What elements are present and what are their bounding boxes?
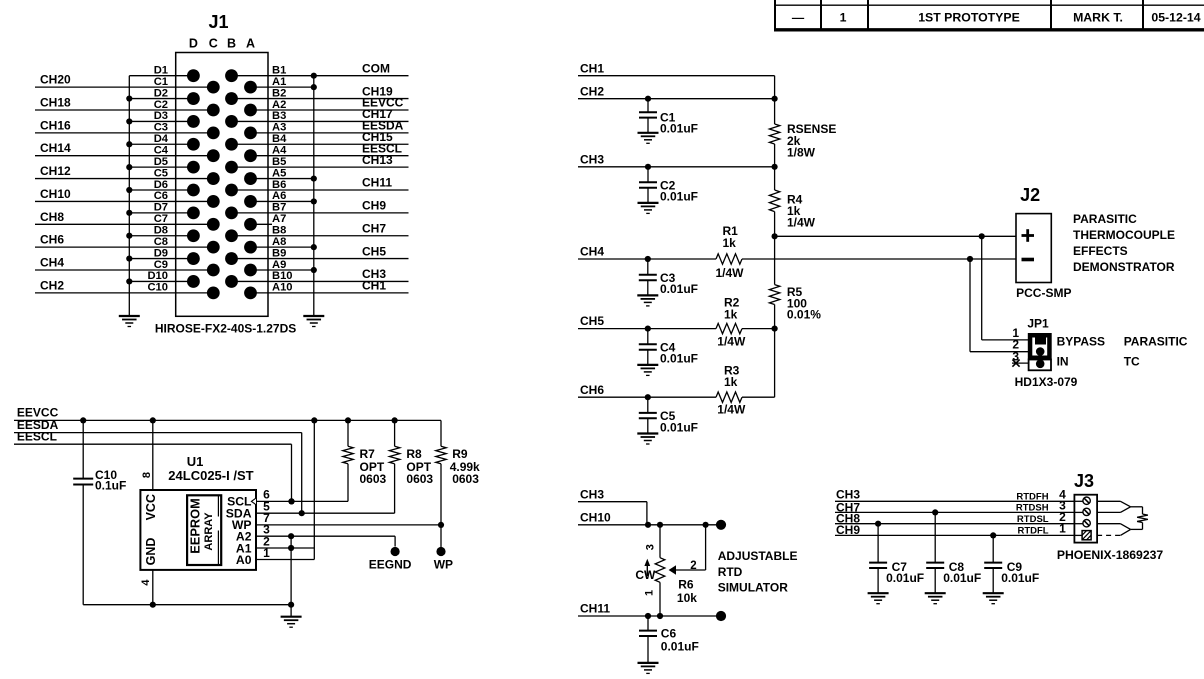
svg-text:C6: C6 [154, 190, 168, 202]
svg-text:CH11: CH11 [362, 176, 392, 190]
svg-text:A7: A7 [272, 213, 286, 225]
svg-text:HD1X3-079: HD1X3-079 [1015, 375, 1078, 389]
svg-text:3: 3 [1012, 349, 1019, 363]
svg-text:ADJUSTABLE: ADJUSTABLE [718, 549, 798, 563]
svg-text:A10: A10 [272, 282, 293, 294]
svg-text:RTDSH: RTDSH [1016, 503, 1049, 514]
svg-text:1ST PROTOTYPE: 1ST PROTOTYPE [918, 11, 1020, 25]
svg-text:J1: J1 [208, 12, 228, 32]
svg-text:ARRAY: ARRAY [203, 512, 215, 551]
svg-text:C3: C3 [154, 122, 168, 134]
svg-text:RTD: RTD [718, 565, 743, 579]
svg-text:D4: D4 [154, 133, 169, 145]
svg-text:D6: D6 [154, 179, 168, 191]
svg-text:CH4: CH4 [40, 256, 64, 270]
svg-text:D2: D2 [154, 87, 168, 99]
svg-text:A4: A4 [272, 145, 287, 157]
svg-text:10k: 10k [677, 591, 697, 605]
svg-text:A2: A2 [272, 99, 286, 111]
svg-text:PARASITIC: PARASITIC [1073, 212, 1137, 226]
svg-text:1/4W: 1/4W [717, 335, 746, 349]
svg-text:1k: 1k [723, 236, 737, 250]
svg-text:1: 1 [840, 11, 847, 25]
svg-text:CH12: CH12 [40, 164, 71, 178]
svg-text:4: 4 [140, 579, 152, 586]
svg-text:B10: B10 [272, 270, 293, 282]
svg-text:0.01uF: 0.01uF [660, 190, 698, 204]
svg-text:C10: C10 [147, 282, 168, 294]
svg-text:CH4: CH4 [580, 245, 604, 259]
svg-text:EEPROM: EEPROM [188, 498, 203, 553]
svg-text:CH3: CH3 [580, 152, 604, 166]
svg-text:CH8: CH8 [40, 210, 64, 224]
svg-text:B3: B3 [272, 110, 286, 122]
svg-text:D5: D5 [154, 156, 168, 168]
svg-text:J3: J3 [1074, 471, 1094, 491]
svg-text:C9: C9 [154, 259, 168, 271]
svg-text:CH20: CH20 [40, 73, 71, 87]
svg-text:CH13: CH13 [362, 153, 393, 167]
svg-text:C7: C7 [154, 213, 168, 225]
svg-text:—: — [792, 11, 805, 25]
svg-text:0.01uF: 0.01uF [660, 282, 698, 296]
svg-text:3: 3 [644, 544, 656, 550]
svg-text:CH14: CH14 [40, 141, 71, 155]
svg-text:CH6: CH6 [580, 383, 604, 397]
svg-text:CH7: CH7 [362, 221, 386, 235]
svg-text:B7: B7 [272, 202, 286, 214]
svg-text:1: 1 [643, 590, 655, 596]
svg-text:A6: A6 [272, 190, 286, 202]
svg-text:R6: R6 [678, 577, 694, 591]
svg-text:B2: B2 [272, 87, 286, 99]
svg-text:B6: B6 [272, 179, 286, 191]
svg-text:CW: CW [635, 568, 656, 582]
svg-text:B5: B5 [272, 156, 286, 168]
svg-text:1k: 1k [724, 375, 738, 389]
svg-text:GND: GND [144, 538, 158, 566]
svg-text:WP: WP [434, 558, 453, 572]
svg-text:CH1: CH1 [580, 61, 604, 75]
svg-text:EFFECTS: EFFECTS [1073, 244, 1128, 258]
svg-text:CH5: CH5 [580, 314, 604, 328]
svg-text:JP1: JP1 [1027, 317, 1049, 331]
svg-text:B8: B8 [272, 225, 286, 237]
svg-text:A1: A1 [272, 76, 286, 88]
svg-text:EEGND: EEGND [369, 558, 412, 572]
svg-text:CH9: CH9 [362, 199, 386, 213]
svg-text:R8: R8 [406, 447, 422, 461]
svg-text:1/8W: 1/8W [787, 146, 816, 160]
svg-text:1/4W: 1/4W [717, 403, 746, 417]
svg-text:D10: D10 [147, 270, 168, 282]
svg-text:CH3: CH3 [580, 487, 604, 501]
svg-text:A0: A0 [236, 553, 252, 567]
svg-text:0.01%: 0.01% [787, 307, 821, 321]
svg-text:0.01uF: 0.01uF [660, 121, 698, 135]
svg-text:B1: B1 [272, 65, 286, 77]
svg-text:0.1uF: 0.1uF [95, 478, 126, 492]
svg-text:CH11: CH11 [580, 602, 610, 616]
svg-text:RTDFH: RTDFH [1016, 491, 1048, 502]
svg-text:C1: C1 [154, 76, 168, 88]
svg-text:D: D [189, 37, 198, 51]
svg-text:D1: D1 [154, 65, 168, 77]
svg-text:C4: C4 [154, 145, 169, 157]
svg-text:PCC-SMP: PCC-SMP [1016, 286, 1071, 300]
svg-text:A8: A8 [272, 236, 286, 248]
svg-text:C8: C8 [154, 236, 168, 248]
svg-text:CH3: CH3 [836, 487, 860, 501]
svg-text:CH2: CH2 [40, 278, 64, 292]
svg-text:BYPASS: BYPASS [1057, 335, 1105, 349]
svg-text:IN: IN [1057, 355, 1069, 369]
svg-text:D3: D3 [154, 110, 168, 122]
svg-text:05-12-14: 05-12-14 [1151, 11, 1200, 25]
svg-text:1/4W: 1/4W [787, 216, 816, 230]
svg-text:0603: 0603 [360, 472, 387, 486]
svg-text:CH5: CH5 [362, 244, 386, 258]
svg-text:THERMOCOUPLE: THERMOCOUPLE [1073, 228, 1175, 242]
svg-text:A5: A5 [272, 167, 286, 179]
svg-text:U1: U1 [187, 454, 204, 469]
svg-text:PARASITIC: PARASITIC [1124, 335, 1188, 349]
svg-text:0603: 0603 [452, 472, 479, 486]
svg-text:C5: C5 [154, 167, 168, 179]
svg-text:1k: 1k [724, 307, 738, 321]
svg-text:CH1: CH1 [362, 279, 386, 293]
svg-text:B4: B4 [272, 133, 287, 145]
svg-text:CH6: CH6 [40, 233, 64, 247]
svg-text:EESCL: EESCL [17, 429, 57, 443]
svg-text:VCC: VCC [144, 494, 158, 520]
svg-text:1/4W: 1/4W [716, 266, 745, 280]
svg-text:0.01uF: 0.01uF [1001, 571, 1039, 585]
svg-text:MARK T.: MARK T. [1073, 11, 1123, 25]
svg-text:C: C [209, 37, 218, 51]
svg-text:0.01uF: 0.01uF [661, 639, 699, 653]
svg-text:HIROSE-FX2-40S-1.27DS: HIROSE-FX2-40S-1.27DS [155, 322, 296, 336]
svg-text:1: 1 [1059, 522, 1066, 536]
svg-text:D9: D9 [154, 247, 168, 259]
svg-text:D8: D8 [154, 225, 168, 237]
svg-text:0.01uF: 0.01uF [886, 571, 924, 585]
svg-text:CH10: CH10 [40, 187, 71, 201]
svg-text:A9: A9 [272, 259, 286, 271]
svg-text:0.01uF: 0.01uF [660, 420, 698, 434]
svg-text:8: 8 [141, 472, 153, 478]
svg-text:A: A [246, 37, 255, 51]
svg-text:CH10: CH10 [580, 510, 611, 524]
svg-text:RTDFL: RTDFL [1017, 526, 1048, 537]
svg-text:SIMULATOR: SIMULATOR [718, 581, 789, 595]
svg-text:DEMONSTRATOR: DEMONSTRATOR [1073, 260, 1175, 274]
svg-text:2: 2 [690, 560, 696, 572]
svg-text:0603: 0603 [406, 472, 433, 486]
svg-text:TC: TC [1124, 355, 1140, 369]
svg-text:R9: R9 [452, 447, 468, 461]
svg-text:B9: B9 [272, 247, 286, 259]
svg-text:B: B [227, 37, 236, 51]
svg-text:A3: A3 [272, 122, 286, 134]
svg-text:D7: D7 [154, 202, 168, 214]
svg-text:0.01uF: 0.01uF [943, 571, 981, 585]
svg-text:CH2: CH2 [580, 84, 604, 98]
svg-text:0.01uF: 0.01uF [660, 352, 698, 366]
svg-text:RTDSL: RTDSL [1017, 514, 1049, 525]
svg-text:PHOENIX-1869237: PHOENIX-1869237 [1057, 548, 1164, 562]
svg-text:COM: COM [362, 61, 390, 75]
svg-text:CH18: CH18 [40, 95, 71, 109]
svg-text:J2: J2 [1020, 185, 1040, 205]
svg-text:R7: R7 [360, 447, 376, 461]
svg-text:C2: C2 [154, 99, 168, 111]
svg-text:24LC025-I /ST: 24LC025-I /ST [168, 468, 253, 483]
svg-text:CH16: CH16 [40, 118, 71, 132]
